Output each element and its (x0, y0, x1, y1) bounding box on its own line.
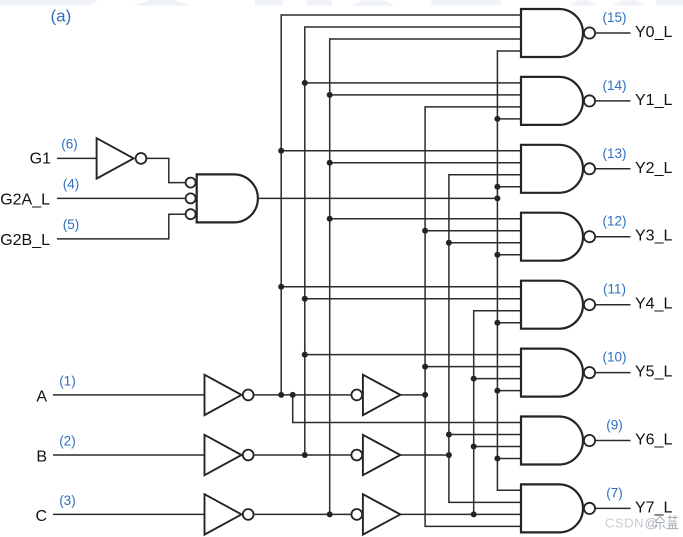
wire net C trunk (474, 311, 521, 515)
svg-text:(15): (15) (602, 10, 626, 25)
wire C input to inverter (53, 513, 205, 515)
junction EN tap Y5 (494, 388, 500, 394)
junction C' tap Y2 (327, 160, 333, 166)
NAND gate U19 (Y7) (521, 484, 595, 532)
junction A' tap Y4 (278, 284, 284, 290)
wire EN feed to gate Y3 (497, 254, 521, 256)
wire EN feed to gate Y6 (497, 458, 521, 460)
svg-text:Y1_L: Y1_L (635, 92, 672, 109)
wire G2A_L input to U4 (57, 197, 185, 199)
wire Y7_L output lead (596, 507, 631, 509)
svg-text:Y5_L: Y5_L (635, 364, 672, 381)
wire Y2_L output lead (596, 168, 631, 170)
svg-text:(14): (14) (602, 78, 626, 93)
wire B' feed to Y4 (305, 298, 521, 300)
wire C' feed to Y3 (330, 218, 521, 220)
inverter U6 (B) (205, 435, 254, 475)
junction C trunk at source row (471, 511, 477, 517)
svg-text:Y4_L: Y4_L (635, 296, 672, 313)
junction A trunk at buffer output (422, 392, 428, 398)
wire net A_L row from inverter to buffer U8 (254, 394, 351, 396)
junction B' trunk at source row (302, 452, 308, 458)
junction C' trunk at source row (327, 511, 333, 517)
svg-text:G2B_L: G2B_L (0, 232, 50, 249)
wire net A trunk (425, 107, 521, 527)
wire A' down branch to Y6 (293, 395, 521, 423)
wire net C' trunk (330, 39, 521, 514)
wire net B trunk (449, 175, 521, 503)
junction EN tap Y1 (494, 116, 500, 122)
wire EN feed to gate Y5 (497, 390, 521, 392)
junction A tap Y5 (422, 364, 428, 370)
wire C feed to Y6 (474, 446, 521, 448)
wire Y5_L output lead (596, 372, 631, 374)
junction B' tap Y5 (302, 352, 308, 358)
svg-text:(11): (11) (603, 282, 626, 297)
wire B' feed to Y1 (305, 82, 521, 84)
wire B feed to Y6 (449, 434, 521, 436)
watermark CSDN @yulan (605, 516, 678, 531)
wire Y3_L output lead (596, 236, 631, 238)
wire U1 output to U4 top input (147, 158, 185, 182)
wire A feed to Y5 (425, 366, 521, 368)
junction C' tap Y1 (327, 92, 333, 98)
wire net C_L row from inverter to buffer U10 (254, 513, 351, 515)
svg-text:CSDN: CSDN (605, 516, 644, 531)
svg-text:A: A (36, 389, 47, 406)
wire EN feed to gate Y1 (497, 118, 521, 120)
inverter U5 (A) (205, 375, 254, 415)
wire B input to inverter (53, 454, 205, 456)
buffer U8 (A, bubbled input) (351, 375, 400, 415)
wire G2B_L input to U4 (57, 214, 185, 239)
svg-text:G1: G1 (30, 151, 51, 168)
wire EN net vertical trunk (497, 51, 521, 490)
junction EN tap Y6 (494, 456, 500, 462)
svg-text:Y7_L: Y7_L (635, 499, 672, 516)
junction EN tap Y2 (494, 184, 500, 190)
buffer U9 (B, bubbled input) (351, 435, 400, 475)
wire net A buffer output (400, 394, 425, 396)
inverter U7 (C) (205, 494, 254, 534)
wire net A' trunk (281, 15, 521, 395)
junction A' down branch at source row (290, 392, 296, 398)
wire C' feed to Y2 (330, 162, 521, 164)
NAND gate U13 (Y1) (521, 77, 595, 125)
wire B' feed to Y5 (305, 354, 521, 356)
svg-text:(2): (2) (59, 433, 75, 448)
junction C' tap Y3 (327, 216, 333, 222)
svg-text:(12): (12) (602, 214, 626, 229)
svg-text:(13): (13) (602, 146, 626, 161)
svg-text:(1): (1) (59, 373, 75, 388)
svg-text:(9): (9) (606, 418, 623, 433)
svg-text:(6): (6) (61, 137, 78, 152)
svg-text:Y2_L: Y2_L (635, 160, 672, 177)
junction B tap Y3 (446, 240, 452, 246)
svg-text:(4): (4) (63, 177, 80, 192)
svg-text:@: @ (645, 516, 658, 531)
wire net B buffer output (400, 454, 449, 456)
svg-text:(10): (10) (602, 350, 626, 365)
junction B' tap Y4 (302, 296, 308, 302)
wire Y0_L output lead (596, 32, 631, 34)
junction EN tap Y4 (494, 320, 500, 326)
junction EN tap Y3 (494, 252, 500, 258)
svg-text:(3): (3) (59, 493, 75, 508)
wire C feed to Y5 (474, 378, 521, 380)
junction C tap Y6 (471, 444, 477, 450)
svg-text:B: B (36, 449, 47, 466)
AND gate U4 (enable, inputs bubbled) (186, 174, 258, 222)
junction EN trunk / AND output (494, 195, 500, 201)
junction C tap Y5 (471, 376, 477, 382)
wire EN net AND output row (258, 197, 498, 199)
wire A input to inverter (53, 394, 205, 396)
NAND gate U18 (Y6) (521, 417, 595, 465)
svg-text:C: C (35, 508, 47, 525)
junction A' trunk at source row (278, 392, 284, 398)
svg-text:Y3_L: Y3_L (635, 228, 672, 245)
NAND gate U16 (Y4) (521, 281, 595, 329)
junction B trunk at buffer output (446, 452, 452, 458)
junction B tap Y6 (446, 432, 452, 438)
wire G1 input to inverter U1 (57, 157, 97, 159)
wire A feed to Y3 (425, 230, 521, 232)
wire C' feed to Y1 (330, 94, 521, 96)
NAND gate U15 (Y3) (521, 213, 595, 261)
wire B feed to Y3 (449, 242, 521, 244)
wire EN feed to gate Y2 (497, 186, 521, 188)
svg-text:Y6_L: Y6_L (635, 432, 672, 449)
svg-text:Y0_L: Y0_L (635, 24, 672, 41)
wire Y6_L output lead (596, 440, 631, 442)
wire net C buffer output into Y7 (400, 513, 521, 515)
svg-text:(7): (7) (606, 485, 623, 500)
junction B' tap Y1 (302, 80, 308, 86)
wire Y1_L output lead (596, 100, 631, 102)
NAND gate U12 (Y0) (521, 9, 595, 57)
wire A' feed to Y2 (281, 150, 521, 152)
wire net B_L row from inverter to buffer U9 (254, 454, 351, 456)
wire EN feed to gate Y4 (497, 322, 521, 324)
junction A tap Y3 (422, 228, 428, 234)
NAND gate U17 (Y5) (521, 349, 595, 397)
svg-text:G2A_L: G2A_L (0, 191, 50, 208)
wire Y4_L output lead (596, 304, 631, 306)
inverter U1 (G1) (97, 138, 147, 178)
junction A' tap Y2 (278, 148, 284, 154)
buffer U10 (C, bubbled input) (351, 494, 400, 534)
svg-text:(a): (a) (51, 7, 72, 26)
wire net B' trunk (305, 27, 521, 455)
NAND gate U14 (Y2) (521, 145, 595, 193)
wire A' feed to Y4 (281, 286, 521, 288)
svg-text:(5): (5) (63, 217, 80, 232)
